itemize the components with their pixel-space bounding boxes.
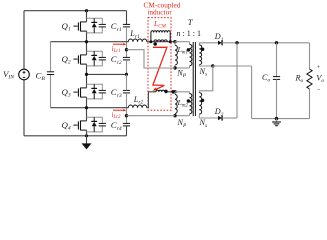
node NP2 polarity dot — [187, 99, 191, 103]
wire bottom rail — [24, 135, 127, 137]
wire Vin left branch upper — [23, 11, 25, 70]
wire output bottom rail — [252, 118, 310, 120]
winding NP2 — [189, 92, 191, 94]
source VIN — [19, 69, 30, 80]
svg-text:Lr2: Lr2 — [133, 95, 144, 106]
wire gray M2 to primary2 bottom — [127, 115, 176, 117]
inductor Lr2 — [128, 105, 146, 108]
wire Cr branch top corner — [126, 11, 128, 25]
wire top rail — [24, 10, 127, 12]
node center tap — [211, 64, 214, 67]
node Ns1 polarity dot — [201, 48, 205, 52]
wire gray M1 to primary1 bottom — [127, 50, 176, 68]
winding NP1 — [189, 42, 191, 45]
node CM phase2 dot a — [165, 90, 168, 93]
node primary1 top — [173, 40, 176, 43]
node phase2 / Q string — [85, 106, 88, 109]
svg-text:iLr1: iLr1 — [112, 45, 121, 54]
svg-text:n : 1 : 1: n : 1 : 1 — [177, 29, 201, 38]
node top-rail / Q1 drain junction — [85, 9, 88, 12]
svg-text:Lm1: Lm1 — [177, 45, 188, 56]
wire Cr1 to node M1 (crosses phase1 line) — [126, 27, 128, 58]
wire output right riser — [309, 43, 311, 69]
svg-text:Co: Co — [262, 73, 270, 84]
resistor Ro — [307, 69, 312, 89]
wire Q string segment 5 — [86, 130, 88, 136]
wire primary2 bottom — [175, 115, 190, 117]
wire phase2 midline — [51, 107, 129, 109]
node CM left — [149, 40, 152, 43]
inductor Lr1 — [128, 39, 146, 42]
wire D2 to riser — [222, 117, 237, 119]
inductor Lm1 — [174, 42, 176, 46]
svg-text:Ro: Ro — [295, 74, 304, 85]
wire primary1 top — [175, 41, 190, 43]
svg-text:Vo: Vo — [316, 74, 324, 85]
capacitor Cr1 — [123, 23, 130, 25]
current arrow iLr1 — [113, 43, 125, 45]
transistor Q2 — [73, 58, 77, 60]
svg-text:Lm2: Lm2 — [177, 98, 189, 109]
svg-text:Cr4: Cr4 — [111, 120, 122, 132]
svg-text:Q1: Q1 — [62, 21, 71, 33]
transistor Q3 — [73, 91, 77, 93]
wire Q string segment 2 — [86, 31, 88, 55]
wire phase1 midline — [51, 41, 129, 43]
svg-text:T: T — [188, 17, 194, 27]
wire center tap to output — [213, 65, 252, 67]
svg-text:VIN: VIN — [3, 69, 14, 81]
inductor CM winding1 top loop — [150, 33, 152, 42]
current arrow iLr2 — [113, 109, 125, 111]
capacitor Cr3 — [123, 89, 130, 91]
winding Ns1 — [198, 43, 200, 45]
node M1 — [125, 48, 128, 51]
svg-text:Ns: Ns — [199, 118, 208, 129]
svg-text:+: + — [317, 64, 321, 71]
winding Ns2 — [198, 91, 200, 93]
diode D2 — [218, 116, 222, 120]
wire Cr2 to mid rail — [126, 60, 128, 75]
wire Ns1 bottom to center tap — [199, 65, 213, 66]
capacitor Cr2 — [123, 56, 130, 58]
svg-text:Ns: Ns — [199, 67, 208, 78]
node primary2 bottom — [173, 114, 176, 117]
svg-text:Cr1: Cr1 — [111, 21, 122, 33]
wire CB top corner — [50, 42, 52, 72]
node NP1 polarity dot — [187, 48, 191, 52]
ground input arrow — [86, 136, 88, 144]
capacitor CB — [47, 71, 54, 73]
node D1 cathode junction — [235, 41, 238, 44]
wire D1 to output top — [222, 42, 309, 44]
svg-text:iLr2: iLr2 — [112, 111, 121, 120]
diode D1 — [218, 41, 222, 45]
transistor Q4 — [73, 124, 77, 126]
node mid rail / Q string — [85, 73, 88, 76]
inductor CM winding1 main-line bumps — [154, 40, 168, 42]
node phase1 / Q string — [85, 40, 88, 43]
wire Cr3 to node M2 (crosses phase2 line) — [126, 93, 128, 124]
capacitor Co — [273, 76, 280, 78]
wire output left drop — [251, 66, 253, 119]
node Co top — [275, 41, 278, 44]
node Co bottom — [275, 117, 278, 120]
red CM current zigzag arrow — [153, 47, 167, 90]
node Ns2 polarity dot — [201, 99, 205, 103]
wire Q string segment 1 — [86, 11, 88, 22]
wire Ns1 top to D1 — [199, 42, 218, 44]
svg-text:LCM: LCM — [153, 19, 167, 29]
node M2 — [125, 114, 128, 117]
svg-text:−: − — [317, 87, 321, 94]
svg-text:NP: NP — [177, 118, 187, 129]
wire phase2 to primary2 top — [167, 91, 175, 93]
wire Q string segment 4 — [86, 97, 88, 121]
transistor Q1 — [73, 25, 77, 27]
node CM right — [169, 40, 172, 43]
inductor Lm2 — [174, 92, 176, 95]
wire Vin left branch lower — [23, 80, 25, 136]
svg-text:CB: CB — [36, 70, 46, 82]
node primary2 top — [173, 90, 176, 93]
svg-text:Q2: Q2 — [62, 54, 71, 66]
wire Cr3 top to mid rail — [126, 74, 128, 90]
wire phase2 step up — [147, 92, 156, 108]
inductor CM winding2 — [156, 90, 167, 92]
wire mid rail — [87, 73, 127, 75]
capacitor Cr4 — [123, 122, 130, 124]
wire Co branch top — [276, 43, 278, 77]
svg-text:NP: NP — [176, 69, 186, 80]
svg-text:D2: D2 — [214, 107, 224, 118]
svg-text:Q4: Q4 — [62, 120, 71, 132]
wire primary1 bottom — [175, 67, 190, 69]
box CM dashed — [148, 18, 171, 111]
wire phase1 into CM box — [147, 41, 175, 43]
svg-text:Lr1: Lr1 — [129, 29, 140, 40]
wire CB bottom corner — [50, 75, 52, 108]
svg-text:Cr2: Cr2 — [111, 54, 122, 66]
wire Co branch bottom — [276, 79, 278, 118]
wire D2 riser up to D1 node — [236, 43, 238, 118]
wire primary2 top — [175, 91, 190, 93]
wire Q string segment 3 — [86, 64, 88, 88]
ground output — [276, 119, 278, 122]
svg-text:inductor: inductor — [147, 7, 172, 16]
node CM phase2 dot b — [171, 90, 175, 94]
wire Ns2 bottom to D2 — [199, 117, 218, 119]
node mid rail / Cr2 — [125, 73, 128, 76]
svg-text:Cr3: Cr3 — [111, 87, 122, 99]
node bottom-rail / Q4 source junction — [85, 134, 88, 137]
node CM polarity dot phase1 — [153, 42, 157, 46]
wire Cr4 to bottom rail — [126, 126, 128, 136]
wire center tap down to Ns2 — [199, 66, 213, 91]
node primary1 bottom — [173, 66, 176, 69]
core transformer T — [192, 42, 194, 116]
svg-text:Q3: Q3 — [62, 87, 71, 99]
